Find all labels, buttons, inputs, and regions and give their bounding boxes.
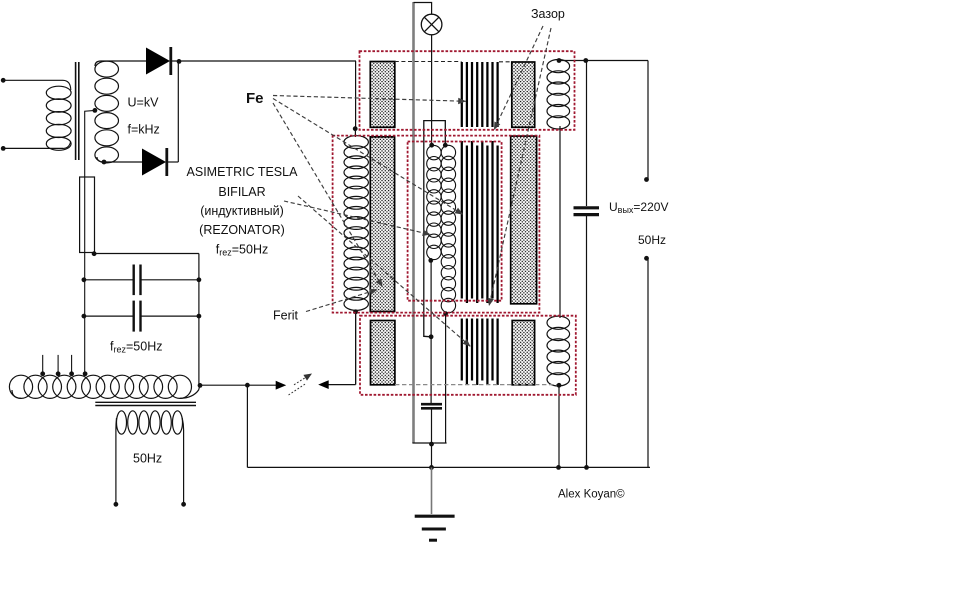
svg-text:U=kV: U=kV <box>128 96 160 110</box>
svg-text:Fe: Fe <box>246 90 264 107</box>
svg-text:Зазор: Зазор <box>531 7 565 21</box>
svg-text:50Hz: 50Hz <box>638 233 666 247</box>
svg-text:BIFILAR: BIFILAR <box>218 185 265 199</box>
svg-text:ASIMETRIC TESLA: ASIMETRIC TESLA <box>187 165 299 179</box>
svg-text:(REZONATOR): (REZONATOR) <box>199 223 285 237</box>
svg-text:Alex Koyan©: Alex Koyan© <box>558 489 625 501</box>
svg-text:f=kHz: f=kHz <box>128 123 160 137</box>
svg-text:50Hz: 50Hz <box>133 452 162 466</box>
svg-text:Ferit: Ferit <box>273 309 299 323</box>
svg-text:(индуктивный): (индуктивный) <box>200 204 284 218</box>
